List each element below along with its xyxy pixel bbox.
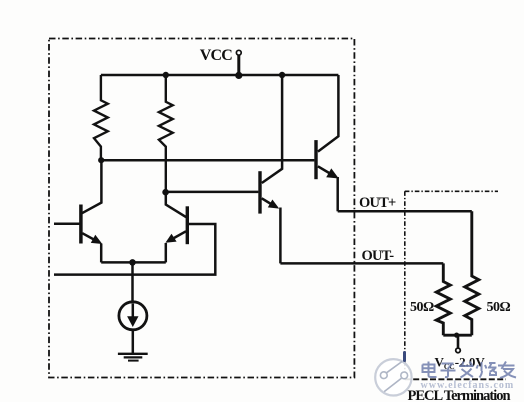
wire Q1 collector [82, 160, 101, 213]
wire OUT+ [338, 210, 472, 213]
wire current source to ground [132, 330, 135, 353]
svg-text:OUT+: OUT+ [359, 195, 396, 211]
wire node B: R2 bottom to Q3 base [166, 191, 259, 194]
transistor Q3 emitter arrow head [268, 200, 279, 209]
transistor Q1 emitter [82, 233, 95, 240]
wire Q2 collector [166, 192, 186, 217]
wire Q2 emitter down [165, 243, 168, 262]
resistor R2 [159, 75, 173, 192]
char you [498, 362, 516, 379]
ground bar 2 [124, 356, 143, 358]
wire node A: R1 bottom to Q4 base [101, 159, 315, 162]
watermark logo pin [375, 353, 411, 396]
junction node rail-VCC [235, 72, 242, 79]
junction node B R2 bottom [162, 189, 169, 196]
svg-text:OUT-: OUT- [362, 248, 395, 264]
wire Q2 base return path [54, 224, 215, 275]
junction node termination bar [454, 333, 459, 338]
svg-text:VCC: VCC [200, 47, 233, 64]
svg-text:50Ω: 50Ω [410, 300, 434, 315]
transistor Q1 base bar [79, 205, 83, 244]
transistor Q2 emitter arrow head [165, 234, 176, 243]
wire Q1 emitter down [100, 244, 103, 263]
resistor RT1 50ohm left [436, 263, 450, 335]
transistor Q1 emitter arrow head [91, 235, 103, 244]
ground bar 3 [128, 360, 139, 362]
current source I1 arrow shaft [132, 304, 135, 318]
ground bar 1 [118, 353, 148, 355]
VTT terminal circle [456, 348, 461, 353]
wire Q1 base input [54, 223, 80, 226]
transistor Q2 emitter [174, 231, 186, 238]
char shao [477, 362, 497, 378]
enclosure dashed box (PECL termination) top edge [405, 190, 498, 192]
transistor Q4 emitter [318, 166, 330, 173]
wire VTT terminal stub [457, 335, 460, 347]
enclosure dashed box (PECL termination) bottom edge [405, 378, 506, 380]
enclosure dashed box (driver IC) [49, 39, 354, 378]
transistor Q2 base bar [186, 206, 189, 244]
svg-text:PECL Termination: PECL Termination [408, 388, 511, 402]
VCC terminal circle [236, 50, 241, 55]
transistor Q4 emitter arrow head [326, 168, 339, 178]
resistor R1 [94, 75, 108, 160]
junction node A R1 bottom [98, 157, 104, 163]
wire OUT- [280, 262, 443, 265]
current source I1 circle [119, 302, 147, 330]
current source I1 arrow head [127, 316, 138, 327]
wire tail to current source [131, 262, 134, 302]
transistor Q4 base bar [314, 140, 317, 179]
wire Q3 emitter down to OUT- [279, 208, 282, 264]
char zi [441, 364, 456, 378]
char dian [423, 362, 437, 378]
wire VCC rail [101, 74, 339, 77]
wire VCC stub [237, 56, 240, 76]
char fa [459, 362, 474, 378]
junction node rail-R2 [163, 72, 169, 78]
transistor Q3 emitter [262, 198, 271, 204]
transistor Q3 base bar [258, 171, 261, 213]
wire Q4 collector to rail [318, 75, 339, 152]
resistor RT2 50ohm right [465, 211, 479, 335]
wire common emitter bus [101, 261, 166, 264]
svg-text:50Ω: 50Ω [487, 300, 511, 315]
junction node common emitter [129, 259, 136, 266]
watermark text dianzifashaoyou [423, 362, 517, 379]
wire termination bottom bar [443, 334, 472, 337]
junction node rail-Q3 collector [279, 72, 285, 78]
wire Q3 collector to rail [262, 75, 282, 183]
wire Q4 emitter down to OUT+ [336, 177, 339, 211]
enclosure dashed box (PECL termination) left edge [404, 191, 406, 379]
